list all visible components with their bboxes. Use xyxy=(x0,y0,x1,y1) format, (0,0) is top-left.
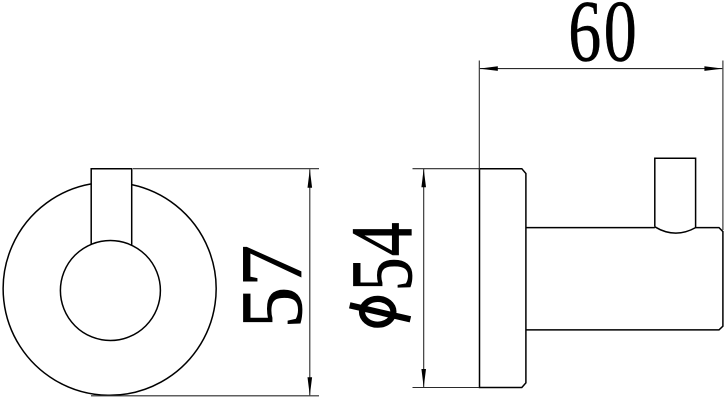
dim 60: dimension line xyxy=(480,68,722,70)
dim ø54: dimension line xyxy=(423,169,425,387)
dim ø54: drawn diameter symbol xyxy=(362,299,393,325)
dim 60: left arrow xyxy=(479,66,498,71)
side view: arm outline with hook fillet sag and rounded tip xyxy=(526,227,723,330)
dim 60: right arrow xyxy=(704,66,723,71)
dim 57: bottom extension line xyxy=(91,395,319,397)
dim 57: top arrow xyxy=(308,169,313,188)
svg-text:60: 60 xyxy=(568,0,639,80)
dim ø54: bottom extension line xyxy=(413,387,480,389)
dim ø54: top arrow xyxy=(421,169,426,188)
dim ø54: top extension line xyxy=(413,168,480,170)
dim 60: right extension line xyxy=(722,61,724,231)
svg-text:54: 54 xyxy=(333,221,430,291)
front view: hook stem rectangle xyxy=(91,169,132,246)
side view: hook post xyxy=(655,158,696,227)
dim 57: bottom arrow xyxy=(308,377,313,396)
dim ø54: bottom arrow xyxy=(421,369,426,388)
front view: outer circle (broken at stem) xyxy=(3,184,216,395)
front view: inner circle xyxy=(60,241,160,341)
dim 57: top extension line xyxy=(133,168,319,170)
dim 57: dimension line xyxy=(309,169,311,395)
side view: wall plate outline xyxy=(480,169,526,388)
dim 60: left extension line xyxy=(478,61,480,171)
svg-text:57: 57 xyxy=(223,245,320,329)
